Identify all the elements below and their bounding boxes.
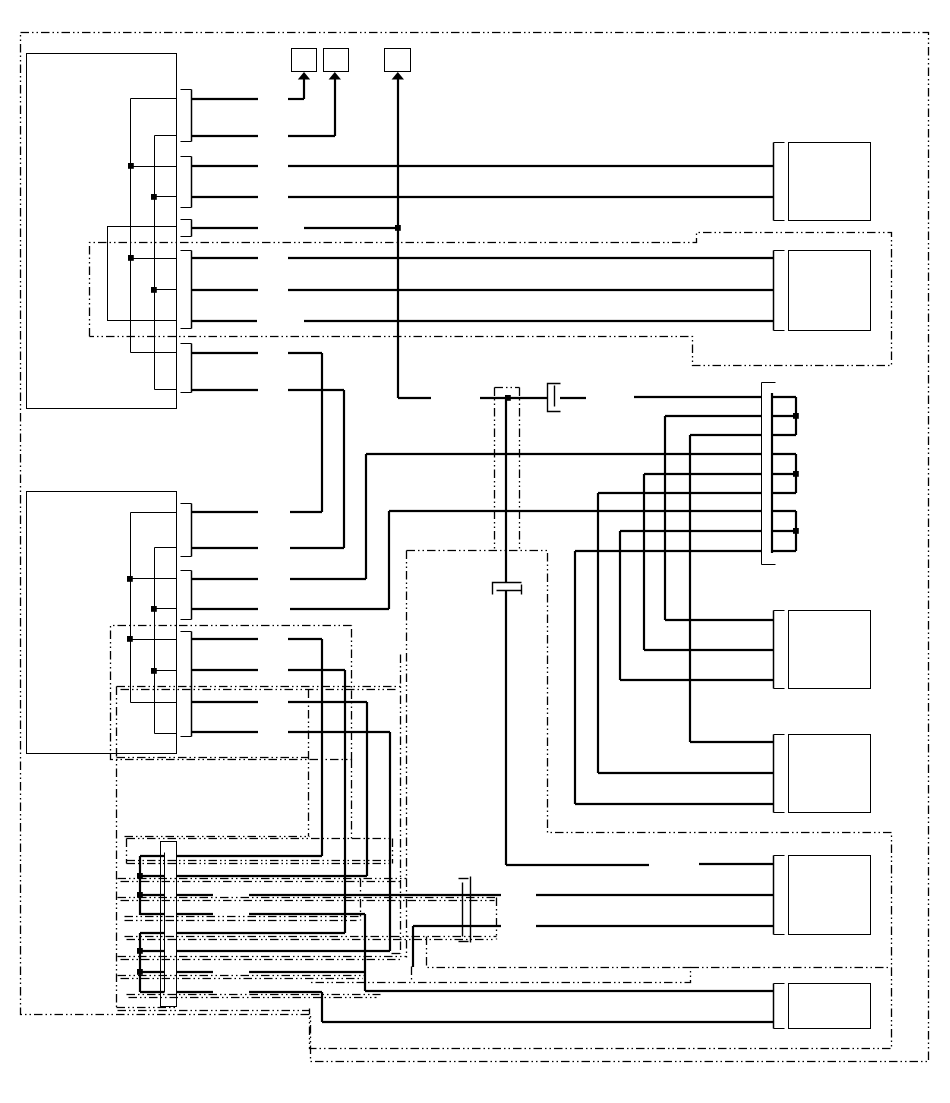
vertical link M2-C pin3 to module M3 pin2 [366,702,368,876]
small shield box around screen junction [495,387,520,389]
module M2 body [27,492,177,754]
wire M1-B pin2 to component K1 pin2 [192,196,258,198]
vertical link M3 pin8 to component K6 pin2 [321,992,323,1022]
vertical link M2-C pin2 to module M3 pin5 [344,670,346,933]
feed box F3 arrow [392,72,404,80]
module M2 internal pin leads [131,512,177,514]
module M1 body [27,54,177,409]
wire M2-C pin3 [192,701,258,703]
screen drain stub near K5 pin3 wire [412,926,414,967]
small dash-dot drop below drain stub [411,967,413,983]
screen drain vertical wire lower half [505,591,507,865]
wire module M3 pin6 [177,950,390,952]
wire to tall connector pin1 [634,396,762,398]
wire feed F3 node to in-line connector [398,397,431,399]
feed box F1 arrow [298,72,310,80]
vertical link M3 pin4 / pin7 / component K6 pin1 [364,914,366,991]
vertical link M1-E pin2 to M2-A pin2 [343,390,345,548]
wire M2-A pin1 [192,511,258,513]
connector bracket M2-A [181,503,192,505]
vertical link M2-C pin1 to module M3 pin1 [321,639,323,856]
wire module M3 pin8 [177,991,213,993]
wire M2-B pin2 [192,608,258,610]
wire module M3 pin3 to component K5 pin2 [177,894,213,896]
wire M2-C pin2 [192,669,258,671]
wire module M3 pin4 with jog to component K5 pin3 [177,913,213,915]
tall connector pin strip [771,393,773,553]
shield tube module2 connector C pins 3-4 [117,686,401,688]
screen drain horizontal run [506,864,649,866]
wire tall connector pin3 to component K4 pin1 [690,434,762,436]
wire tall connector pin2 to component K3 pin1 [665,415,762,417]
component box K6 [773,984,775,1029]
wire resuming to screened junction [480,397,547,399]
module M2 internal junction dots [127,576,133,582]
screen junction dot [505,395,511,401]
bus wire to tall connector pin7 [389,510,762,512]
wire M1-A pin1 to feed F1 [192,98,258,100]
wire M2-C pin4 [192,731,258,733]
wire module M3 pin1 [177,855,322,857]
wire M1-D pin2 to component K2 pin2 [192,289,258,291]
connector bracket M1-C [181,219,192,221]
vertical link M1-E pin1 to M2-A pin1 [321,353,323,512]
wire tall connector pin5 to component K3 pin2 [644,473,762,475]
module M1 internal bus line A [130,99,132,353]
screen drain wire to component K5 pin1 [699,863,774,865]
connector bracket M1-A [181,89,192,91]
module M1 internal sub-box [108,227,177,321]
component box K3 [773,611,775,689]
in-line connector X2 on screen drain wire [493,583,522,595]
tall connector loopback group 1 [772,396,796,398]
wire module M3 pin5 [177,932,345,934]
wire to component K6 pin2 [322,1021,774,1023]
tall connector loopback group 3 [772,510,796,512]
module M3 pin stubs [140,855,164,857]
in-line connector X3 on module M3 wires [462,883,464,937]
shield outline around screened cable to component 5 and components 5-6 area [310,551,892,1049]
connector bracket M2-C [181,631,192,633]
tall connector body [761,383,763,565]
component box K2 [773,251,775,331]
wire M1-E pin1 down-link [192,352,258,354]
wire jog to component K5 pin3 [413,925,501,927]
wire tall connector pin9 to component K4 pin3 [575,550,762,552]
vertical link M2-B pin2 up to bus wire [388,511,390,609]
wire M2-A pin2 [192,547,258,549]
wire M1-B pin1 to component K1 pin1 [192,165,258,167]
component box K5 [773,856,775,935]
shield tube dash-dot near screen drain bottom [400,655,402,954]
feed box F2 [324,49,349,72]
wire tall connector pin6 to component K4 pin2 [598,492,762,494]
feed F3 drop wire [397,78,399,398]
junction dot on feed F3 drop [395,225,401,231]
shield box around module1 lower connector and right components 1-2 [90,233,892,366]
shield tube around wires to component 6 [310,937,691,983]
feed box F2 arrow [329,72,341,80]
feed box F3 [385,49,411,72]
wire M2-B pin1 [192,578,258,580]
tall connector loopback group 2 [772,453,796,455]
wire module M3 pin7 [177,971,213,973]
feed box F1 [292,49,317,72]
wire M2-C pin1 [192,638,258,640]
module M2 internal bus line A [130,513,132,703]
module M1 internal junction dots [128,163,134,169]
wire to component K6 pin1 [365,990,774,992]
module M3 pin group bus 2 [139,933,141,992]
module M3 pin strip [164,853,166,993]
component box K1 [773,143,775,221]
wire M1-D pin3 to component K2 pin3 [192,320,257,322]
module M3 body [161,842,177,1007]
shield left edge down from screened pair box [406,551,408,960]
module M1 internal pin leads [131,98,177,100]
wire M1-E pin2 down-link [192,389,258,391]
wire M1-C pin to feed F3 node [192,227,258,229]
module M3 junction dots [137,873,143,879]
connector bracket M1-D [181,250,192,252]
connector bracket M1-B [181,156,192,158]
component box K4 [773,735,775,813]
module M1 internal bus line B [154,136,156,390]
in-line connector X1 on pin1 wire [548,384,561,412]
screen drain vertical wire [505,398,507,582]
wire M1-A pin2 to feed F2 [192,135,258,137]
bus wire to tall connector pin4 [366,453,762,455]
shield tube module2 connector C pins 1-2 [111,626,352,760]
wire tall connector pin8 to component K3 pin3 [620,530,762,532]
vertical link M2-B pin1 up to bus wire [365,454,367,579]
wire module M3 pin2 [177,875,367,877]
vertical link M2-C pin4 to module M3 pin6 [389,732,391,951]
wire from in-line connector X1 to break [560,397,586,399]
wire M1-D pin1 to component K2 pin1 [192,257,258,259]
module M2 internal bus line B [154,548,156,734]
module M3 pin group bus 1 [139,856,141,915]
shield tubes around module3 wires [127,838,393,840]
connector bracket M2-B [181,570,192,572]
connector bracket M1-E [181,343,192,345]
